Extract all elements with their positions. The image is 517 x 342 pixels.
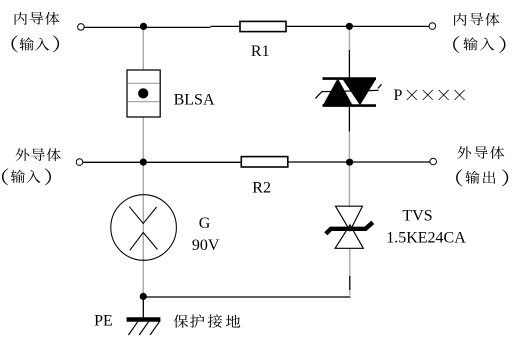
wire: BLSA down to middle-left junction xyxy=(142,117,144,162)
svg-text:P: P xyxy=(394,87,403,104)
wire: middle row, input terminal to R2 xyxy=(83,161,241,163)
wire: bottom earth rail xyxy=(143,296,350,298)
svg-text:R1: R1 xyxy=(251,43,270,60)
terminal: inner conductor input (top-left) xyxy=(78,24,85,31)
wire: middle-right junction down to TVS xyxy=(348,162,350,206)
thyristor surge protector P×××× xyxy=(315,79,381,106)
node: middle-right junction xyxy=(346,159,353,166)
svg-text:90V: 90V xyxy=(192,237,220,254)
label: outer conductor (mid-left) 外导体 xyxy=(16,148,61,161)
surge arrester BLSA xyxy=(127,70,160,117)
svg-text:TVS: TVS xyxy=(402,207,432,224)
svg-text:PE: PE xyxy=(94,313,113,330)
wire: top row, R1 to output terminal xyxy=(286,25,429,27)
label: (input) mid-left （输入） xyxy=(2,168,51,185)
wire: middle-left junction down through G to earth junction xyxy=(142,162,144,297)
label: protective earth 保护接地 xyxy=(174,314,241,327)
svg-text:G: G xyxy=(199,215,211,232)
wire: top-left junction down to BLSA xyxy=(142,27,144,71)
label: inner conductor (top-left) 内导体 xyxy=(15,12,60,25)
node: middle-left junction xyxy=(140,159,147,166)
label: P×××× crosses xyxy=(407,90,465,101)
node: earth junction xyxy=(140,293,147,300)
resistor R2 xyxy=(241,157,287,167)
node: top-right junction xyxy=(346,23,353,30)
wire: TVS down to earth rail xyxy=(349,248,351,276)
gas discharge tube G xyxy=(111,195,177,261)
svg-text:BLSA: BLSA xyxy=(174,92,215,109)
resistor R1 xyxy=(240,21,286,31)
label: outer conductor (mid-right) 外导体 xyxy=(457,146,504,159)
ground PE (protective earth) xyxy=(127,296,161,335)
terminal: outer conductor output (mid-right) xyxy=(430,158,437,165)
label: (input) top-right （输入） xyxy=(453,36,505,53)
terminal: inner conductor output (top-right) xyxy=(429,23,436,30)
TVS diode 1.5KE24CA xyxy=(326,206,373,248)
wire: P thyristor down to middle-right junction xyxy=(348,107,350,132)
label: inner conductor (top-right) 内导体 xyxy=(454,13,499,26)
wire: top row, step segment to R1 xyxy=(211,25,241,27)
label: (output) mid-right （输出） xyxy=(456,169,508,186)
wire: top-right junction down to P thyristor xyxy=(348,27,350,51)
label: (input) top-left （输入） xyxy=(12,35,60,52)
svg-text:1.5KE24CA: 1.5KE24CA xyxy=(386,230,466,247)
wire: middle row, R2 to output terminal xyxy=(288,161,430,163)
wire: top row, input terminal to R1 (left part) xyxy=(84,26,210,28)
svg-text:R2: R2 xyxy=(252,180,271,197)
terminal: outer conductor input (mid-left) xyxy=(76,159,83,166)
node: top-left junction xyxy=(140,23,147,30)
